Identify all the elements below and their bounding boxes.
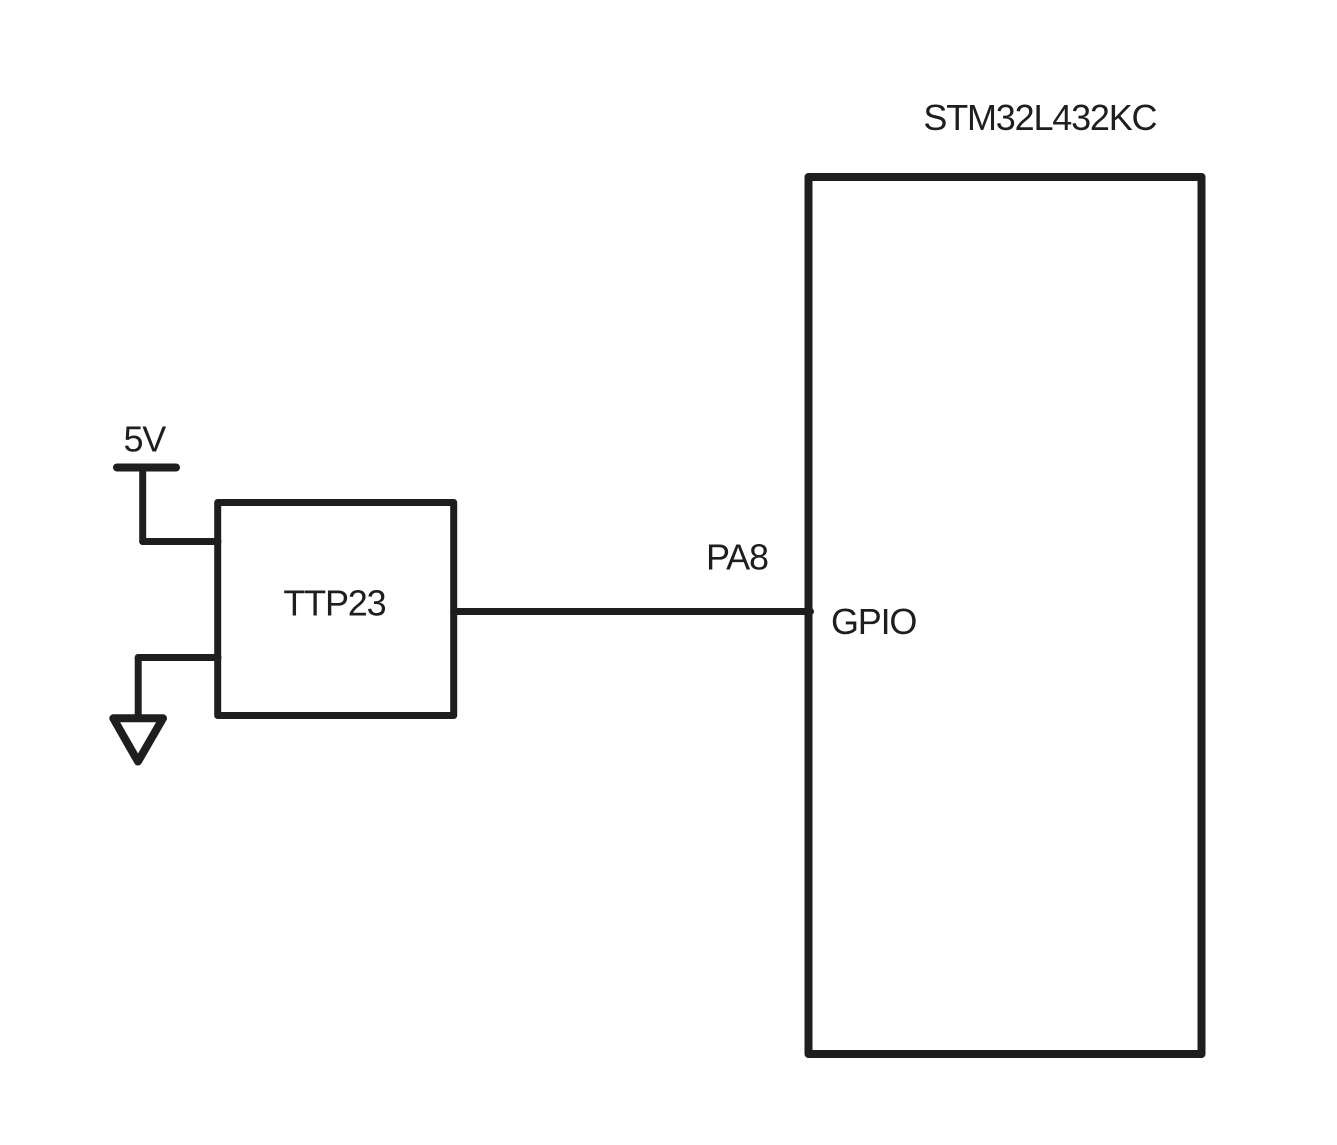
IC U1 STM32L432KC body (809, 177, 1202, 1054)
wire 5V: vertical drop from rail (139, 468, 146, 542)
wire GND: vertical drop to ground symbol (135, 658, 142, 718)
svg-text:GPIO: GPIO (831, 601, 916, 642)
sensor U2 TTP23 body (218, 503, 454, 716)
svg-text:5V: 5V (123, 419, 166, 460)
power symbol 5V rail bar (117, 464, 176, 472)
ground symbol (open triangle) (113, 718, 163, 761)
svg-text:STM32L432KC: STM32L432KC (923, 97, 1156, 138)
svg-text:TTP23: TTP23 (283, 582, 385, 623)
wire net PA8: TTP23 output to U1 GPIO (454, 608, 811, 615)
wire GND: horizontal from TTP23 GND pin (138, 654, 218, 661)
wire 5V: horizontal into TTP23 VCC pin (143, 538, 218, 545)
svg-text:PA8: PA8 (706, 537, 768, 578)
